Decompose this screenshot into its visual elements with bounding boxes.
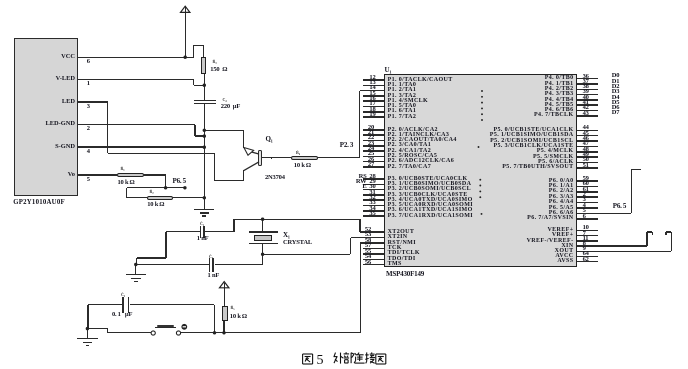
svg-text:5: 5 [317,353,324,368]
